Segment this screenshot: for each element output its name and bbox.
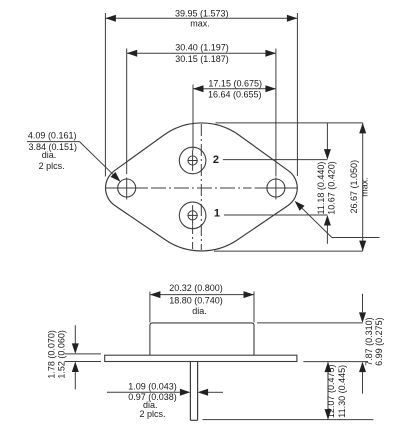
svg-text:10.67 (0.420): 10.67 (0.420) [326,161,336,215]
svg-text:max.: max. [190,18,210,28]
svg-text:1: 1 [214,208,220,220]
svg-text:1.09 (0.043): 1.09 (0.043) [128,381,177,391]
dim 12.07 (0.475) / 11.30 (0.445) lead length [325,362,347,420]
dim 7.87 (0.310) / 6.99 (0.275) cap height [359,294,384,394]
dim 26.67 (1.050) max. can height [214,123,370,251]
svg-text:39.95 (1.573): 39.95 (1.573) [175,8,229,18]
svg-text:4.09 (0.161): 4.09 (0.161) [28,130,77,140]
svg-text:20.32 (0.800): 20.32 (0.800) [169,283,223,293]
cap-top extension line [257,322,363,324]
pin 1 circles + crosshair [179,202,206,229]
svg-text:11.18 (0.440): 11.18 (0.440) [316,162,326,215]
dim 20.32 (0.800) / 18.80 (0.740) dia. cap diameter [150,283,254,323]
left mounting hole [118,178,136,200]
svg-text:1.52 (0.060): 1.52 (0.060) [56,330,66,379]
dim 1.09 (0.043) / 0.97 (0.038) dia. 2 plcs. lead diameter [107,381,223,419]
dim 17.15 (0.675) / 16.64 (0.655) pin offset [193,78,276,150]
flange (side view) [105,355,297,361]
svg-text:7.87 (0.310): 7.87 (0.310) [364,317,374,366]
leader arrow to can edge [295,201,380,238]
TO-3 can flange outline (top view) [106,123,298,251]
dim 30.40 (1.197) / 30.15 (1.187) hole spacing [127,43,276,177]
svg-text:18.80 (0.740): 18.80 (0.740) [169,296,223,306]
leader line from pin 2 label [223,159,328,161]
svg-text:max.: max. [360,177,370,197]
dim 11.18 (0.440) / 10.67 (0.420) pin spacing arrows [316,123,336,244]
svg-text:12.07 (0.475): 12.07 (0.475) [326,365,336,419]
flange-bottom extension line [303,361,368,363]
dim 39.95 (1.573) max. overall width [105,8,297,176]
pin 2 label [213,154,219,166]
leads (side view) [190,362,197,421]
right mounting hole [267,178,285,200]
svg-text:30.40 (1.197): 30.40 (1.197) [175,43,229,53]
svg-text:16.64 (0.655): 16.64 (0.655) [208,90,262,100]
pin 2 circles + crosshair [179,147,206,174]
hole diameter callout 4.09 (0.161) / 3.84 (0.151) dia. 2 plcs. [27,130,121,181]
svg-text:1.78 (0.070): 1.78 (0.070) [47,330,57,379]
svg-text:dia.: dia. [42,150,57,160]
svg-text:2: 2 [213,154,219,166]
svg-text:11.30 (0.445): 11.30 (0.445) [337,365,347,418]
svg-text:30.15 (1.187): 30.15 (1.187) [175,54,229,64]
svg-text:17.15 (0.675): 17.15 (0.675) [208,78,262,88]
pin axis centerline below pin 1 (dash-dot) [192,226,194,249]
leader line from pin 1 label [224,214,328,216]
svg-text:26.67 (1.050): 26.67 (1.050) [349,160,359,214]
horizontal centerline (dash-dot) with long dashes through holes [105,187,297,189]
vertical centerline (dash-dot) [200,124,202,250]
svg-text:2 plcs.: 2 plcs. [39,161,65,171]
svg-text:2 plcs.: 2 plcs. [139,409,165,419]
lead-bottom extension line [203,419,374,421]
cap (can dome, side view) [150,323,254,355]
dim 1.78 (0.070) / 1.52 (0.060) flange thickness [47,325,101,389]
svg-text:dia.: dia. [192,306,207,316]
pin 1 label [214,208,220,220]
svg-text:6.99 (0.275): 6.99 (0.275) [374,317,384,366]
